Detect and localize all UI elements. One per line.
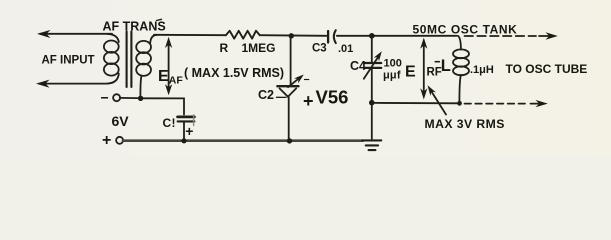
svg-text:100: 100 <box>384 58 402 70</box>
svg-text:V56: V56 <box>316 87 349 108</box>
transformer core <box>127 32 132 88</box>
variable capacitor C4 <box>364 36 385 101</box>
label E_RF <box>405 64 442 81</box>
svg-text:.1μH: .1μH <box>470 64 494 76</box>
svg-text:AF: AF <box>169 75 184 87</box>
wire secondary top to resistor <box>154 34 226 36</box>
arrowhead bottom dashed (points right) <box>531 103 541 105</box>
junction dot inductor bottom <box>457 101 462 106</box>
bottom dashed wire to osc tube <box>465 103 529 105</box>
battery plus terminal <box>102 132 123 149</box>
junction dot C4 top <box>369 33 375 39</box>
capacitor C1 <box>178 115 195 140</box>
ground rail wire <box>123 139 363 142</box>
svg-text:L: L <box>441 57 451 75</box>
arrowhead AF input bottom (points left) <box>36 80 50 88</box>
measurement arrow E_RF (double headed) <box>420 38 427 100</box>
svg-text:RF: RF <box>427 67 442 79</box>
wire C4 junction to ground <box>371 103 373 139</box>
tank bottom rail <box>375 102 460 104</box>
svg-text:50MC OSC TANK: 50MC OSC TANK <box>413 23 518 37</box>
svg-text:.01: .01 <box>338 43 353 55</box>
junction dot C2 top <box>289 33 294 38</box>
wire minus terminal to junction <box>120 97 138 99</box>
C4 variable arrow <box>364 55 380 79</box>
label C3 .01 <box>312 43 353 56</box>
svg-text:+: + <box>303 91 314 111</box>
junction dot C2 on rail <box>287 138 292 143</box>
inductor L coil <box>453 36 469 103</box>
top dashed wire to osc tube <box>465 35 537 37</box>
wire AF input bottom lead <box>39 83 108 85</box>
label +V56 <box>303 87 348 112</box>
leader arrow MAX 3V to E_RF <box>425 84 446 115</box>
svg-text:R: R <box>220 41 229 55</box>
measurement arrow E_AF (double headed) <box>165 37 172 96</box>
wire AF input top lead <box>40 33 112 35</box>
transformer primary winding <box>104 34 119 84</box>
svg-text:TO OSC TUBE: TO OSC TUBE <box>506 62 588 76</box>
svg-text:1MEG: 1MEG <box>242 41 276 55</box>
svg-text:MAX 3V RMS: MAX 3V RMS <box>425 117 505 131</box>
junction dot C1 on rail <box>181 138 186 143</box>
transformer secondary winding <box>136 35 157 96</box>
resistor R zigzag <box>226 31 260 39</box>
capacitor C3 <box>328 30 336 43</box>
arrowhead top dashed (points right) <box>539 35 550 37</box>
battery minus terminal <box>101 90 121 106</box>
label L with leader <box>435 57 451 75</box>
svg-text:−: − <box>101 90 109 106</box>
wire C3 to inductor top <box>337 35 457 37</box>
varicap C2 variable arrow <box>288 77 301 87</box>
svg-text:+: + <box>102 132 111 149</box>
svg-text:C3: C3 <box>312 43 327 55</box>
svg-text:( MAX 1.5V RMS): ( MAX 1.5V RMS) <box>184 66 284 80</box>
label C2 with leader <box>258 88 286 102</box>
ground symbol <box>362 140 381 150</box>
junction dot tank bottom <box>369 100 375 106</box>
svg-text:AF INPUT: AF INPUT <box>42 55 95 67</box>
svg-text:C4: C4 <box>350 59 366 73</box>
svg-text:E: E <box>158 68 169 85</box>
svg-text:C2: C2 <box>258 88 274 102</box>
wire resistor to C3 <box>260 34 327 37</box>
label 100 uuf <box>383 58 402 82</box>
svg-text:E: E <box>405 64 416 81</box>
svg-text:+: + <box>185 123 193 139</box>
svg-text:μμf: μμf <box>383 70 401 82</box>
label E_AF ( MAX 1.5V RMS) <box>158 66 284 87</box>
svg-text:C!: C! <box>163 116 176 130</box>
wire junction to C1 <box>143 98 184 114</box>
varicap diode C2 <box>277 36 306 139</box>
svg-text:−: − <box>304 74 310 86</box>
junction dot secondary bottom <box>138 96 143 101</box>
arrowhead AF input top (points left) <box>37 30 51 38</box>
svg-text:6V: 6V <box>112 113 130 129</box>
svg-text:AF TRANS: AF TRANS <box>103 20 166 34</box>
label R 1MEG <box>220 41 276 55</box>
